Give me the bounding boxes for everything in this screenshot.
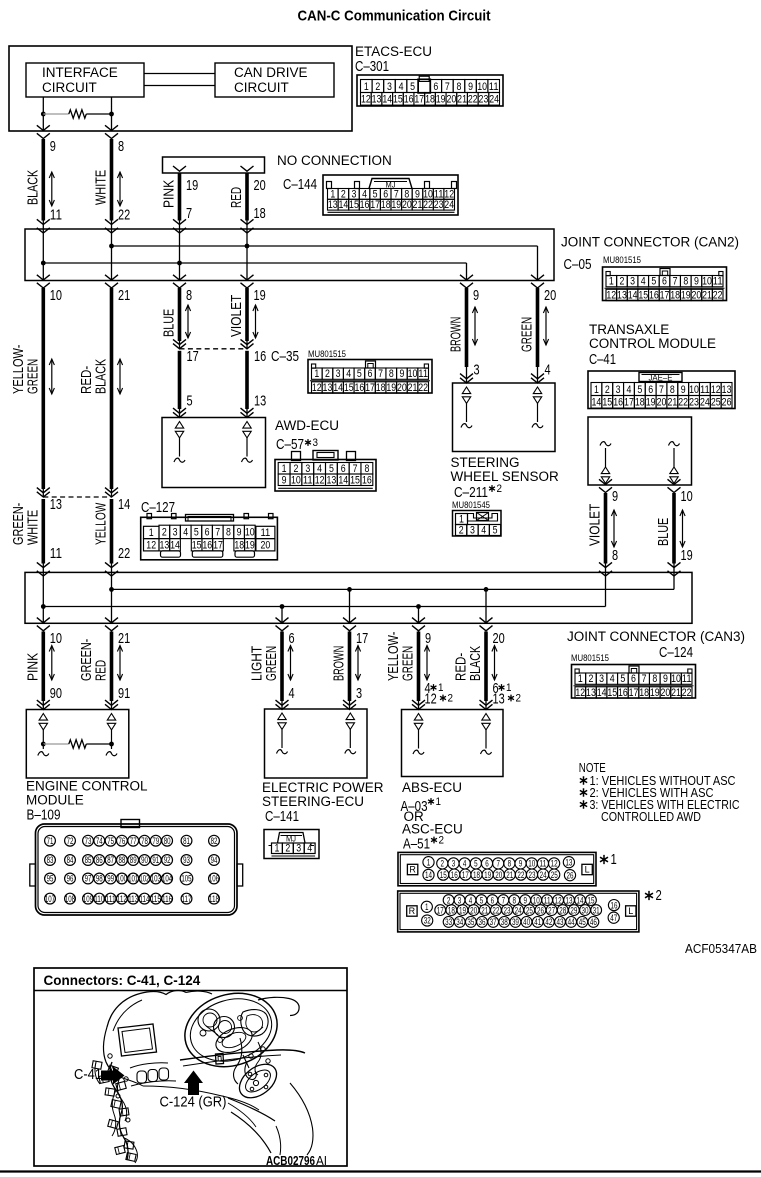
svg-text:2: 2 xyxy=(459,525,464,537)
svg-text:STEERING-ECU: STEERING-ECU xyxy=(262,794,364,809)
svg-text:17: 17 xyxy=(624,397,634,409)
svg-text:3: 3 xyxy=(387,81,392,93)
svg-text:1: 1 xyxy=(427,857,431,867)
svg-text:2: 2 xyxy=(497,483,503,495)
svg-text:22: 22 xyxy=(682,687,692,699)
svg-text:17: 17 xyxy=(213,540,223,552)
svg-text:26: 26 xyxy=(722,397,732,409)
svg-text:30: 30 xyxy=(582,905,589,915)
svg-text:8: 8 xyxy=(612,547,618,564)
svg-text:40: 40 xyxy=(523,917,530,927)
svg-text:INTERFACE: INTERFACE xyxy=(42,65,118,80)
svg-text:11: 11 xyxy=(261,527,271,539)
svg-text:17: 17 xyxy=(660,289,670,301)
svg-text:BLACK: BLACK xyxy=(467,646,484,681)
svg-text:11: 11 xyxy=(489,81,499,93)
svg-text:4: 4 xyxy=(610,673,615,685)
svg-text:2: 2 xyxy=(656,887,662,904)
svg-text:PINK: PINK xyxy=(161,180,178,208)
svg-text:22: 22 xyxy=(492,905,499,915)
svg-text:5: 5 xyxy=(410,81,415,93)
svg-text:1: 1 xyxy=(609,276,614,288)
svg-text:10: 10 xyxy=(50,287,62,304)
svg-text:4: 4 xyxy=(399,81,404,93)
svg-text:C-124 (GR): C-124 (GR) xyxy=(160,1095,227,1111)
svg-text:6: 6 xyxy=(368,368,373,380)
svg-text:2: 2 xyxy=(375,81,380,93)
svg-text:BLACK: BLACK xyxy=(24,170,41,205)
svg-text:13: 13 xyxy=(327,474,337,486)
svg-text:6: 6 xyxy=(205,527,210,539)
svg-text:7: 7 xyxy=(445,81,450,93)
svg-text:20: 20 xyxy=(254,177,266,194)
svg-text:21: 21 xyxy=(667,397,677,409)
svg-text:8: 8 xyxy=(513,895,517,905)
svg-text:2: 2 xyxy=(325,368,330,380)
svg-text:STEERING: STEERING xyxy=(451,455,520,470)
svg-text:C–211: C–211 xyxy=(454,485,488,501)
svg-text:14: 14 xyxy=(592,397,602,409)
svg-text:24: 24 xyxy=(700,397,710,409)
svg-text:108: 108 xyxy=(65,894,75,904)
svg-text:7: 7 xyxy=(659,384,664,396)
svg-text:115: 115 xyxy=(151,894,161,904)
svg-text:20: 20 xyxy=(446,94,456,106)
svg-text:11: 11 xyxy=(713,276,723,288)
svg-text:2: 2 xyxy=(516,693,522,705)
svg-text:86: 86 xyxy=(96,855,103,865)
svg-text:11: 11 xyxy=(303,474,313,486)
svg-text:13: 13 xyxy=(159,540,169,552)
svg-text:9: 9 xyxy=(612,488,618,505)
svg-text:17: 17 xyxy=(462,870,469,880)
svg-text:20: 20 xyxy=(544,287,556,304)
svg-text:16: 16 xyxy=(451,870,458,880)
svg-text:85: 85 xyxy=(85,855,92,865)
svg-text:5: 5 xyxy=(620,673,625,685)
svg-text:5: 5 xyxy=(474,859,478,869)
svg-text:13: 13 xyxy=(328,199,338,211)
svg-text:8: 8 xyxy=(389,368,394,380)
svg-text:91: 91 xyxy=(118,685,130,702)
svg-text:9: 9 xyxy=(50,138,56,155)
svg-text:10: 10 xyxy=(671,673,681,685)
svg-text:10: 10 xyxy=(681,488,693,505)
svg-text:20: 20 xyxy=(397,382,407,394)
svg-text:2: 2 xyxy=(447,895,451,905)
svg-text:47: 47 xyxy=(610,913,617,923)
svg-text:4: 4 xyxy=(545,362,551,379)
svg-text:24: 24 xyxy=(515,905,522,915)
svg-text:17: 17 xyxy=(356,630,368,647)
svg-text:2: 2 xyxy=(589,673,594,685)
svg-text:11: 11 xyxy=(418,368,428,380)
svg-text:21: 21 xyxy=(671,687,681,699)
svg-text:75: 75 xyxy=(107,836,114,846)
svg-text:81: 81 xyxy=(183,836,190,846)
svg-text:14: 14 xyxy=(597,687,607,699)
svg-text:YELLOW: YELLOW xyxy=(93,502,110,545)
svg-text:1: 1 xyxy=(275,843,280,855)
svg-text:19: 19 xyxy=(459,905,466,915)
svg-text:6: 6 xyxy=(491,895,495,905)
svg-text:18: 18 xyxy=(381,199,391,211)
svg-text:3: 3 xyxy=(313,437,319,449)
svg-text:4: 4 xyxy=(307,843,312,855)
svg-text:L: L xyxy=(585,865,590,875)
svg-text:17: 17 xyxy=(370,199,380,211)
svg-text:38: 38 xyxy=(501,917,508,927)
svg-text:16: 16 xyxy=(362,474,372,486)
svg-text:6: 6 xyxy=(433,81,438,93)
svg-text:C–124: C–124 xyxy=(659,645,693,661)
svg-text:4: 4 xyxy=(463,859,467,869)
svg-text:89: 89 xyxy=(130,855,137,865)
svg-text:19: 19 xyxy=(484,870,491,880)
svg-text:1: 1 xyxy=(314,368,319,380)
svg-text:1: 1 xyxy=(506,682,512,694)
svg-text:17: 17 xyxy=(437,905,444,915)
svg-text:21: 21 xyxy=(413,199,423,211)
svg-text:C–35: C–35 xyxy=(271,349,299,365)
svg-text:13: 13 xyxy=(50,496,62,513)
svg-text:2: 2 xyxy=(439,835,445,847)
svg-text:35: 35 xyxy=(467,917,474,927)
svg-text:4: 4 xyxy=(481,525,486,537)
svg-text:3: 3 xyxy=(599,673,604,685)
svg-text:3: 3 xyxy=(305,463,310,475)
svg-text:101: 101 xyxy=(128,874,138,884)
svg-text:95: 95 xyxy=(47,874,54,884)
svg-text:22: 22 xyxy=(468,94,478,106)
svg-text:10: 10 xyxy=(702,276,712,288)
svg-text:7: 7 xyxy=(642,673,647,685)
svg-text:8: 8 xyxy=(226,527,231,539)
svg-text:22: 22 xyxy=(517,870,524,880)
svg-text:87: 87 xyxy=(107,855,114,865)
svg-text:36: 36 xyxy=(479,917,486,927)
svg-text:88: 88 xyxy=(119,855,126,865)
svg-text:42: 42 xyxy=(545,917,552,927)
svg-text:18: 18 xyxy=(376,382,386,394)
svg-text:14: 14 xyxy=(170,540,180,552)
svg-text:2: 2 xyxy=(441,859,445,869)
svg-text:CONTROLLED AWD: CONTROLLED AWD xyxy=(601,809,701,824)
svg-text:GREEN: GREEN xyxy=(400,646,417,681)
svg-text:90: 90 xyxy=(50,685,62,702)
svg-text:19: 19 xyxy=(646,397,656,409)
svg-text:10: 10 xyxy=(477,81,487,93)
svg-text:2: 2 xyxy=(448,693,454,705)
svg-text:77: 77 xyxy=(130,836,137,846)
svg-text:PINK: PINK xyxy=(24,653,41,681)
svg-text:1: 1 xyxy=(436,796,442,808)
svg-text:C–141: C–141 xyxy=(265,809,299,825)
svg-text:19: 19 xyxy=(681,547,693,564)
svg-text:19: 19 xyxy=(681,289,691,301)
svg-text:JOINT CONNECTOR (CAN3): JOINT CONNECTOR (CAN3) xyxy=(567,629,745,644)
svg-text:4: 4 xyxy=(641,276,646,288)
svg-text:25: 25 xyxy=(551,870,558,880)
svg-text:102: 102 xyxy=(139,874,149,884)
svg-text:4: 4 xyxy=(317,463,322,475)
svg-text:RED: RED xyxy=(93,660,110,681)
svg-text:8: 8 xyxy=(186,287,192,304)
svg-text:18: 18 xyxy=(635,397,645,409)
svg-text:14: 14 xyxy=(333,382,343,394)
svg-text:3: 3 xyxy=(458,895,462,905)
svg-text:RED: RED xyxy=(228,187,245,208)
svg-text:96: 96 xyxy=(67,874,74,884)
svg-text:103: 103 xyxy=(151,874,161,884)
svg-text:22: 22 xyxy=(678,397,688,409)
svg-text:19: 19 xyxy=(245,540,255,552)
svg-text:94: 94 xyxy=(211,855,218,865)
svg-text:2: 2 xyxy=(293,463,298,475)
svg-text:8: 8 xyxy=(364,463,369,475)
svg-text:MODULE: MODULE xyxy=(26,793,84,808)
svg-text:MU801545: MU801545 xyxy=(452,500,490,510)
svg-text:MU801515: MU801515 xyxy=(571,653,609,663)
svg-text:5: 5 xyxy=(480,895,484,905)
svg-text:33: 33 xyxy=(445,917,452,927)
svg-text:8: 8 xyxy=(457,81,462,93)
svg-text:1: 1 xyxy=(611,851,617,868)
svg-text:L: L xyxy=(628,906,633,916)
svg-text:71: 71 xyxy=(47,836,54,846)
svg-text:12: 12 xyxy=(146,540,156,552)
svg-text:9: 9 xyxy=(681,384,686,396)
svg-text:19: 19 xyxy=(186,177,198,194)
svg-text:TRANSAXLE: TRANSAXLE xyxy=(589,322,669,337)
svg-text:5: 5 xyxy=(493,525,498,537)
svg-text:12: 12 xyxy=(425,691,437,708)
svg-text:9: 9 xyxy=(399,368,404,380)
svg-text:CIRCUIT: CIRCUIT xyxy=(234,80,289,95)
svg-text:C–57: C–57 xyxy=(276,437,304,453)
svg-text:11: 11 xyxy=(50,545,62,562)
svg-text:116: 116 xyxy=(162,894,172,904)
svg-text:18: 18 xyxy=(670,289,680,301)
svg-text:99: 99 xyxy=(107,874,114,884)
svg-text:14: 14 xyxy=(118,496,130,513)
svg-text:C–144: C–144 xyxy=(283,177,317,193)
svg-text:16: 16 xyxy=(254,348,266,365)
svg-text:6: 6 xyxy=(662,276,667,288)
svg-text:18: 18 xyxy=(448,905,455,915)
svg-text:15: 15 xyxy=(440,870,447,880)
svg-text:10: 10 xyxy=(408,368,418,380)
svg-text:15: 15 xyxy=(344,382,354,394)
svg-text:BROWN: BROWN xyxy=(331,646,348,681)
svg-text:23: 23 xyxy=(689,397,699,409)
svg-text:20: 20 xyxy=(261,540,271,552)
svg-text:CAN DRIVE: CAN DRIVE xyxy=(234,65,308,80)
svg-text:6: 6 xyxy=(631,673,636,685)
svg-text:ETACS-ECU: ETACS-ECU xyxy=(355,44,432,59)
svg-text:14: 14 xyxy=(338,474,348,486)
svg-text:39: 39 xyxy=(512,917,519,927)
svg-text:117: 117 xyxy=(181,894,191,904)
svg-text:118: 118 xyxy=(209,894,219,904)
svg-text:10: 10 xyxy=(528,859,535,869)
svg-text:98: 98 xyxy=(96,874,103,884)
svg-text:GREEN: GREEN xyxy=(24,359,41,394)
svg-text:44: 44 xyxy=(568,917,575,927)
svg-text:110: 110 xyxy=(94,894,104,904)
svg-text:23: 23 xyxy=(434,199,444,211)
svg-text:5: 5 xyxy=(329,463,334,475)
svg-text:12: 12 xyxy=(551,859,558,869)
svg-text:8: 8 xyxy=(118,138,124,155)
svg-text:23: 23 xyxy=(529,870,536,880)
svg-text:31: 31 xyxy=(593,905,600,915)
svg-text:10: 10 xyxy=(50,630,62,647)
svg-text:9: 9 xyxy=(425,630,431,647)
svg-text:97: 97 xyxy=(85,874,92,884)
svg-text:JOINT CONNECTOR (CAN2): JOINT CONNECTOR (CAN2) xyxy=(561,235,739,250)
svg-text:20: 20 xyxy=(657,397,667,409)
svg-text:21: 21 xyxy=(118,630,130,647)
svg-text:15: 15 xyxy=(607,687,617,699)
svg-text:16: 16 xyxy=(360,199,370,211)
svg-text:16: 16 xyxy=(404,94,414,106)
svg-text:14: 14 xyxy=(628,289,638,301)
svg-text:24: 24 xyxy=(444,199,454,211)
svg-text:10: 10 xyxy=(245,527,255,539)
svg-text:GREEN: GREEN xyxy=(519,317,536,352)
svg-text:B–109: B–109 xyxy=(27,808,61,824)
svg-text:ABS-ECU: ABS-ECU xyxy=(402,780,462,795)
svg-text:11: 11 xyxy=(544,895,551,905)
svg-text:78: 78 xyxy=(141,836,148,846)
svg-text:13: 13 xyxy=(493,691,505,708)
svg-text:7: 7 xyxy=(378,368,383,380)
svg-text:10: 10 xyxy=(291,474,301,486)
svg-text:12: 12 xyxy=(361,94,371,106)
svg-text:18: 18 xyxy=(425,94,435,106)
svg-text:20: 20 xyxy=(493,630,505,647)
svg-text:23: 23 xyxy=(479,94,489,106)
svg-text:25: 25 xyxy=(711,397,721,409)
svg-text:3: 3 xyxy=(470,525,475,537)
svg-text:12: 12 xyxy=(555,895,562,905)
svg-text:12: 12 xyxy=(312,382,322,394)
svg-text:21: 21 xyxy=(506,870,513,880)
svg-text:74: 74 xyxy=(96,836,103,846)
svg-text:2: 2 xyxy=(620,276,625,288)
svg-text:32: 32 xyxy=(424,916,431,926)
svg-text:20: 20 xyxy=(495,870,502,880)
svg-text:13: 13 xyxy=(586,687,596,699)
svg-text:MU801515: MU801515 xyxy=(308,349,346,359)
svg-text:8: 8 xyxy=(670,384,675,396)
svg-text:7: 7 xyxy=(496,859,500,869)
svg-text:7: 7 xyxy=(353,463,358,475)
svg-text:27: 27 xyxy=(548,905,555,915)
svg-text:90: 90 xyxy=(141,855,148,865)
svg-text:GREEN: GREEN xyxy=(263,646,280,681)
svg-text:5: 5 xyxy=(651,276,656,288)
svg-text:16: 16 xyxy=(202,540,212,552)
svg-text:18: 18 xyxy=(639,687,649,699)
svg-text:13: 13 xyxy=(566,895,573,905)
svg-text:BLUE: BLUE xyxy=(161,309,178,337)
svg-text:11: 11 xyxy=(682,673,692,685)
svg-text:14: 14 xyxy=(382,94,392,106)
svg-text:34: 34 xyxy=(456,917,463,927)
svg-text:15: 15 xyxy=(393,94,403,106)
svg-text:26: 26 xyxy=(537,905,544,915)
svg-text:9: 9 xyxy=(519,859,523,869)
svg-text:13: 13 xyxy=(722,384,732,396)
svg-text:82: 82 xyxy=(211,836,218,846)
svg-text:5: 5 xyxy=(637,384,642,396)
svg-text:11: 11 xyxy=(700,384,710,396)
svg-text:JAE–E: JAE–E xyxy=(649,373,673,383)
svg-text:9: 9 xyxy=(237,527,242,539)
svg-text:109: 109 xyxy=(83,894,93,904)
svg-text:106: 106 xyxy=(209,874,219,884)
svg-text:7: 7 xyxy=(215,527,220,539)
svg-text:WHITE: WHITE xyxy=(24,510,41,545)
svg-text:ENGINE CONTROL: ENGINE CONTROL xyxy=(26,779,148,794)
svg-text:18: 18 xyxy=(234,540,244,552)
svg-text:20: 20 xyxy=(402,199,412,211)
svg-text:8: 8 xyxy=(652,673,657,685)
svg-text:37: 37 xyxy=(490,917,497,927)
svg-text:NO CONNECTION: NO CONNECTION xyxy=(277,153,392,168)
svg-text:1: 1 xyxy=(578,673,583,685)
svg-text:17: 17 xyxy=(414,94,424,106)
svg-text:24: 24 xyxy=(489,94,499,106)
svg-text:10: 10 xyxy=(689,384,699,396)
svg-text:C–127: C–127 xyxy=(141,500,175,516)
svg-text:111: 111 xyxy=(106,894,116,904)
svg-text:25: 25 xyxy=(526,905,533,915)
svg-text:6: 6 xyxy=(289,630,295,647)
svg-text:11: 11 xyxy=(50,207,62,224)
svg-text:2: 2 xyxy=(605,384,610,396)
svg-text:VIOLET: VIOLET xyxy=(587,504,604,546)
svg-text:21: 21 xyxy=(408,382,418,394)
svg-text:16: 16 xyxy=(613,397,623,409)
svg-text:4: 4 xyxy=(346,368,351,380)
svg-text:28: 28 xyxy=(559,905,566,915)
svg-text:84: 84 xyxy=(67,855,74,865)
svg-text:10: 10 xyxy=(533,895,540,905)
svg-text:Connectors: C-41, C-124: Connectors: C-41, C-124 xyxy=(44,973,201,988)
svg-text:83: 83 xyxy=(47,855,54,865)
svg-text:4: 4 xyxy=(469,895,473,905)
svg-text:113: 113 xyxy=(128,894,138,904)
svg-text:1: 1 xyxy=(438,682,444,694)
svg-text:7: 7 xyxy=(673,276,678,288)
svg-text:7: 7 xyxy=(502,895,506,905)
svg-text:9: 9 xyxy=(282,474,287,486)
svg-text:73: 73 xyxy=(85,836,92,846)
svg-text:24: 24 xyxy=(540,870,547,880)
svg-text:17: 17 xyxy=(365,382,375,394)
svg-text:18: 18 xyxy=(473,870,480,880)
svg-text:16: 16 xyxy=(354,382,364,394)
svg-text:41: 41 xyxy=(534,917,541,927)
svg-text:C–05: C–05 xyxy=(564,257,592,273)
svg-text:BLUE: BLUE xyxy=(655,518,672,546)
svg-text:ACF05347AB: ACF05347AB xyxy=(685,941,757,956)
svg-text:C–41: C–41 xyxy=(589,352,616,368)
svg-text:9: 9 xyxy=(468,81,473,93)
